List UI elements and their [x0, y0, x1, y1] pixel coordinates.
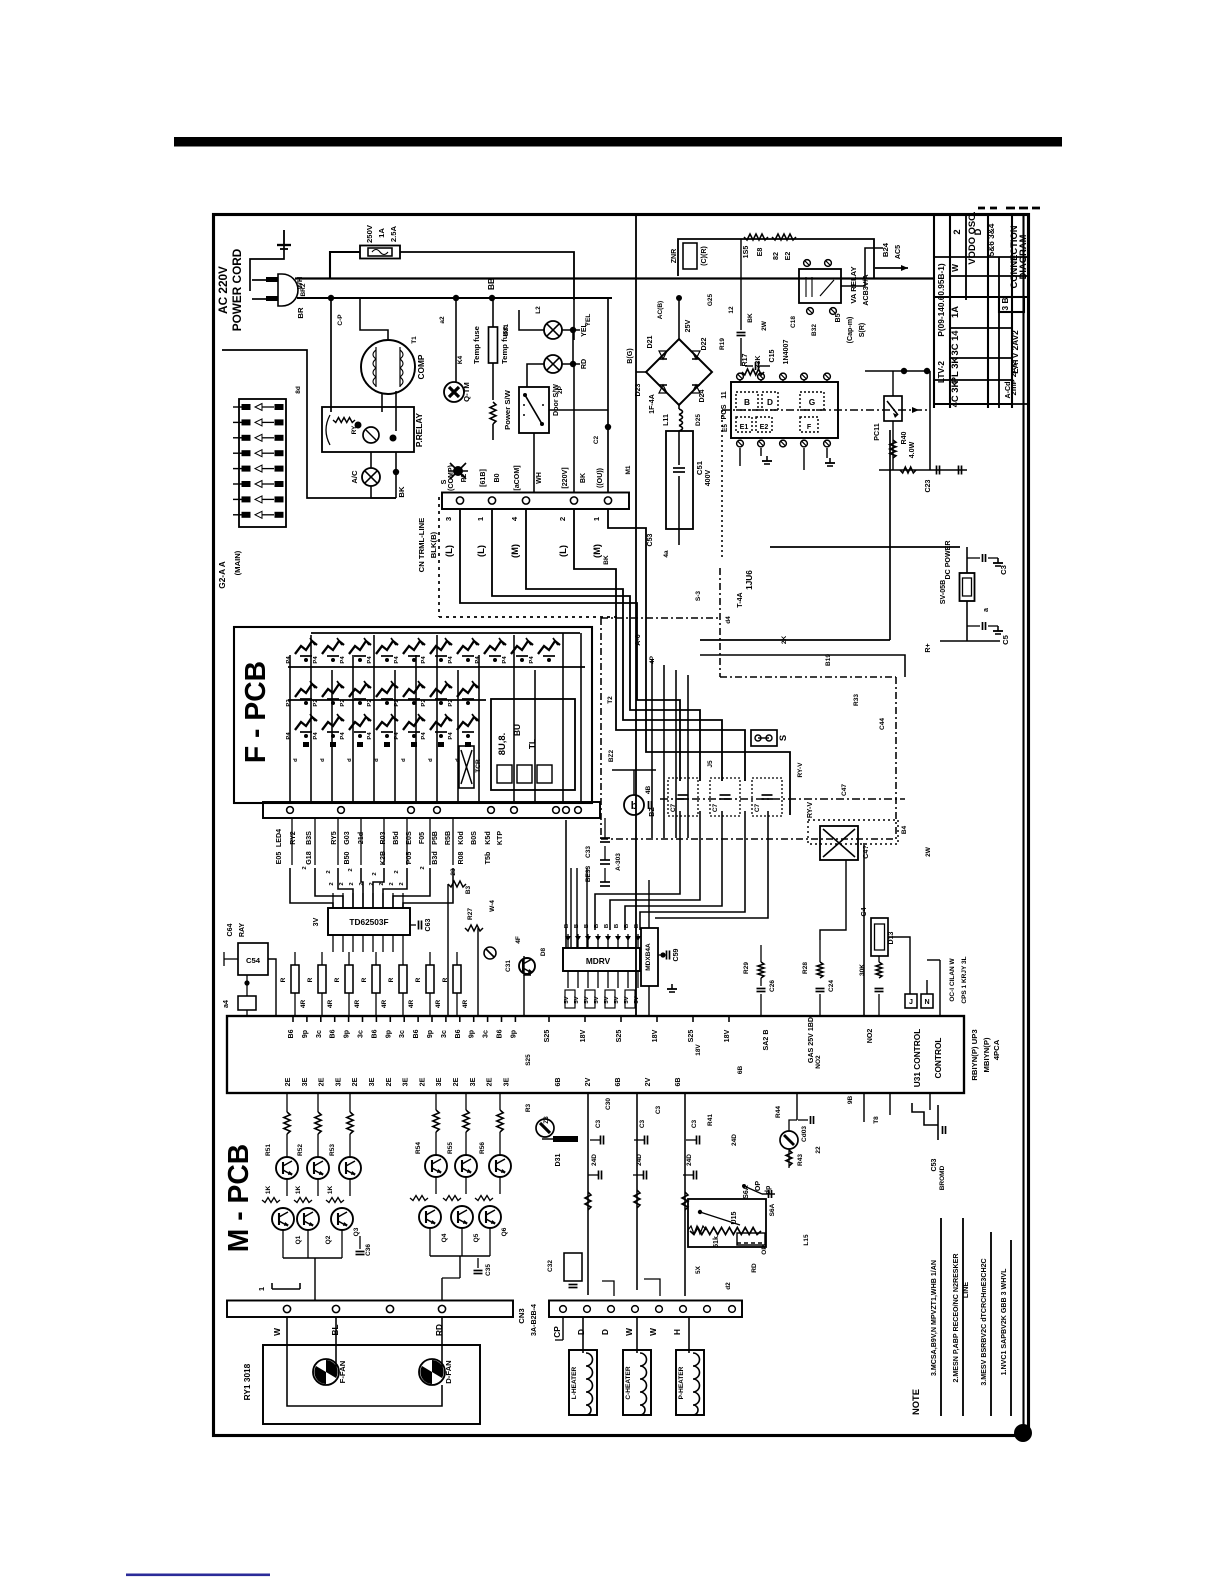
- right cluster above M-PCB: [448, 881, 466, 887]
- svg-text:C-HEATER: C-HEATER: [625, 1366, 632, 1399]
- svg-text:C24: C24: [828, 980, 835, 992]
- svg-text:S: S: [440, 479, 448, 484]
- junction dots on neutral: [328, 295, 334, 301]
- svg-text:9p: 9p: [509, 1029, 517, 1038]
- svg-text:3.MESV BSRBV2C dTCRCHmE3CH2C: 3.MESV BSRBV2C dTCRCHmE3CH2C: [980, 1258, 988, 1385]
- svg-text:B: B: [594, 924, 600, 928]
- svg-text:C3: C3: [999, 565, 1008, 575]
- svg-text:P4: P4: [367, 732, 373, 740]
- svg-text:(L): (L): [443, 545, 454, 557]
- svg-text:MDRV: MDRV: [586, 956, 611, 966]
- svg-text:E2: E2: [784, 252, 792, 261]
- svg-text:P.RELAY: P.RELAY: [414, 412, 424, 447]
- svg-text:1A: 1A: [377, 228, 386, 238]
- svg-text:G03: G03: [343, 831, 351, 844]
- svg-text:U15: U15: [730, 1211, 738, 1224]
- svg-text:B50: B50: [343, 851, 351, 864]
- svg-text:(M): (M): [509, 544, 520, 558]
- relay RY-V: [820, 826, 858, 860]
- svg-text:E5: E5: [722, 424, 729, 432]
- U21 bottom pins: [332, 935, 334, 952]
- svg-text:OC-I CILAN W: OC-I CILAN W: [949, 957, 956, 1001]
- svg-text:Q6: Q6: [501, 1227, 508, 1236]
- svg-text:CPS 1 KRJY 3L: CPS 1 KRJY 3L: [961, 956, 968, 1003]
- svg-text:VA RELAY: VA RELAY: [849, 266, 858, 303]
- F-PCB right verticals: [562, 633, 564, 802]
- svg-text:S: S: [777, 735, 788, 741]
- svg-text:R51: R51: [265, 1144, 272, 1156]
- svg-text:C3: C3: [595, 1119, 602, 1128]
- svg-text:8U,8.: 8U,8.: [496, 733, 507, 755]
- svg-text:B5d: B5d: [392, 831, 400, 844]
- svg-text:3E: 3E: [334, 1077, 342, 1086]
- svg-text:B4: B4: [901, 825, 908, 834]
- lamp symbols on relay: [804, 260, 811, 267]
- svg-text:4C 3K: 4C 3K: [949, 380, 960, 407]
- svg-text:C30: C30: [605, 1098, 612, 1110]
- resistor R40: [890, 440, 896, 458]
- connector strip CN1: [442, 493, 629, 510]
- svg-text:2: 2: [389, 882, 395, 886]
- svg-text:4: 4: [510, 516, 519, 521]
- svg-text:B24: B24: [881, 242, 890, 257]
- svg-text:F - PCB: F - PCB: [239, 661, 271, 763]
- wire earth to plug: [250, 245, 284, 291]
- staircase into MDRV: [595, 811, 680, 930]
- svg-text:C3: C3: [655, 1105, 662, 1114]
- stub wires below M-PCB right: [863, 1093, 865, 1122]
- svg-text:C44: C44: [879, 718, 886, 730]
- svg-text:18V: 18V: [723, 1029, 731, 1042]
- svg-text:Cd03: Cd03: [801, 1126, 808, 1142]
- svg-text:B3S: B3S: [305, 831, 313, 845]
- svg-text:POWER CORD: POWER CORD: [230, 248, 244, 331]
- svg-text:51k: 51k: [712, 1236, 720, 1248]
- svg-text:YEL: YEL: [585, 314, 592, 327]
- svg-text:R: R: [442, 977, 449, 982]
- svg-text:Q2: Q2: [325, 1235, 332, 1244]
- svg-text:82: 82: [772, 252, 780, 260]
- svg-text:TD62503F: TD62503F: [349, 917, 388, 927]
- svg-text:24D: 24D: [636, 1154, 643, 1166]
- svg-text:d: d: [293, 758, 299, 762]
- svg-text:B32: B32: [811, 324, 818, 336]
- transistor Q31: [536, 1119, 554, 1137]
- svg-text:2E: 2E: [318, 1077, 326, 1086]
- svg-text:BLK(B): BLK(B): [429, 531, 438, 558]
- svg-text:1JU6: 1JU6: [744, 570, 754, 590]
- svg-text:C54: C54: [246, 956, 261, 965]
- svg-text:BK: BK: [579, 472, 587, 483]
- fan motor D-FAN: [419, 1359, 445, 1385]
- svg-text:BR: BR: [296, 307, 305, 319]
- svg-text:OP: OP: [754, 1181, 762, 1192]
- temp fuse: [492, 298, 494, 327]
- svg-text:E8: E8: [756, 248, 764, 257]
- svg-text:4F: 4F: [515, 936, 522, 944]
- svg-text:R: R: [334, 977, 341, 982]
- svg-text:3A-B2B-4: 3A-B2B-4: [530, 1304, 538, 1336]
- svg-text:(L): (L): [475, 545, 486, 557]
- svg-text:2.5A: 2.5A: [389, 225, 398, 242]
- dotted caps row: [668, 778, 698, 816]
- svg-text:3: 3: [444, 517, 453, 521]
- svg-text:B: B: [634, 924, 640, 928]
- svg-text:C2: C2: [593, 435, 600, 444]
- smps box right edge: [889, 430, 891, 640]
- svg-text:C32: C32: [547, 1260, 554, 1272]
- M-PCB pin ticks top: [292, 1016, 294, 1022]
- svg-text:3C 14: 3C 14: [949, 330, 960, 356]
- relay RY-P box: [322, 407, 414, 452]
- svg-text:3c: 3c: [440, 1030, 448, 1038]
- svg-text:3E: 3E: [368, 1077, 376, 1086]
- svg-text:Q1: Q1: [295, 1235, 302, 1244]
- svg-text:B0: B0: [493, 473, 501, 482]
- svg-text:P05: P05: [405, 852, 413, 865]
- svg-text:G2-A A: G2-A A: [217, 561, 227, 589]
- svg-text:C63: C63: [424, 918, 432, 931]
- svg-text:C59: C59: [672, 948, 680, 961]
- svg-text:24D: 24D: [686, 1154, 693, 1166]
- wires M-PCB down to thermostat: [587, 1093, 589, 1295]
- wire relay to AC lamp: [370, 452, 372, 468]
- svg-text:6B: 6B: [737, 1066, 744, 1075]
- svg-text:Q5: Q5: [473, 1233, 480, 1242]
- svg-text:D8: D8: [540, 947, 547, 956]
- svg-text:K0d: K0d: [457, 831, 465, 844]
- svg-text:5&6 3&4: 5&6 3&4: [986, 223, 996, 256]
- svg-text:C3: C3: [691, 1119, 698, 1128]
- wire plug to fuse riser: [295, 252, 360, 279]
- vertical main bus: [635, 214, 637, 1016]
- svg-text:1F-4A: 1F-4A: [648, 394, 656, 414]
- svg-text:NOTE: NOTE: [910, 1389, 921, 1415]
- svg-text:B0S: B0S: [470, 831, 478, 845]
- svg-text:4R: 4R: [381, 1000, 388, 1009]
- CN TRML dashed branch: [438, 497, 440, 617]
- svg-text:2W: 2W: [925, 846, 932, 857]
- svg-text:P4: P4: [394, 656, 400, 664]
- svg-text:P4: P4: [421, 656, 427, 664]
- DC power supply 7805: [770, 546, 960, 548]
- svg-text:L-HEATER: L-HEATER: [571, 1367, 578, 1400]
- earth ground symbol: [283, 230, 285, 245]
- svg-text:((OU)): ((OU)): [596, 467, 604, 488]
- svg-text:2: 2: [349, 882, 355, 886]
- svg-text:L11: L11: [662, 414, 670, 426]
- svg-text:MBIYN(P): MBIYN(P): [982, 1037, 991, 1072]
- svg-text:22: 22: [815, 1146, 822, 1154]
- svg-text:S(R): S(R): [858, 322, 866, 337]
- svg-text:1: 1: [476, 516, 485, 521]
- elbow wires into U21: [290, 868, 333, 908]
- svg-text:BROMD: BROMD: [939, 1165, 946, 1190]
- svg-text:3E: 3E: [435, 1077, 443, 1086]
- svg-text:DC POWER: DC POWER: [944, 540, 952, 579]
- svg-text:R27: R27: [467, 908, 474, 920]
- svg-text:R28: R28: [802, 962, 809, 974]
- svg-text:4R: 4R: [300, 1000, 307, 1009]
- fan inner frame: [287, 1345, 442, 1406]
- transformer T1: [361, 340, 415, 394]
- svg-text:T8: T8: [873, 1116, 880, 1124]
- svg-text:1K: 1K: [327, 1186, 334, 1195]
- svg-text:D13: D13: [887, 931, 895, 944]
- svg-text:C33: C33: [585, 846, 592, 858]
- svg-text:B19: B19: [825, 654, 832, 666]
- svg-text:P4: P4: [286, 656, 292, 664]
- svg-text:T-4A: T-4A: [736, 592, 744, 607]
- bottom-left blue underline: [126, 1574, 270, 1577]
- svg-text:B: B: [614, 924, 620, 928]
- svg-text:D: D: [972, 228, 983, 235]
- svg-text:K2B: K2B: [379, 851, 387, 865]
- svg-text:18V: 18V: [651, 1029, 659, 1042]
- svg-text:C15: C15: [768, 349, 776, 362]
- svg-text:P4: P4: [529, 656, 535, 664]
- svg-text:B: B: [744, 397, 750, 407]
- M-PCB main connector: [227, 1016, 964, 1093]
- svg-text:d2: d2: [725, 1282, 732, 1290]
- svg-text:AC(B): AC(B): [657, 301, 664, 319]
- svg-text:P4: P4: [340, 732, 346, 740]
- svg-text:D25: D25: [695, 414, 702, 426]
- svg-text:RY: RY: [351, 425, 358, 434]
- resistor row below U21: [294, 952, 296, 965]
- svg-text:AC 220V: AC 220V: [216, 266, 230, 314]
- svg-text:P(09-140.60.95B-1): P(09-140.60.95B-1): [936, 263, 946, 337]
- svg-text:MDXB4A: MDXB4A: [645, 943, 652, 971]
- bridge leads: [678, 298, 680, 339]
- svg-text:4B: 4B: [645, 786, 652, 795]
- svg-text:BK: BK: [603, 555, 610, 565]
- svg-text:RY1 3018: RY1 3018: [242, 1363, 252, 1400]
- svg-text:11: 11: [720, 391, 728, 399]
- dash-dot enclosure: [601, 617, 720, 619]
- svg-text:D21: D21: [646, 335, 654, 348]
- svg-text:6B: 6B: [674, 1077, 682, 1086]
- svg-text:F: F: [807, 423, 812, 431]
- svg-text:(M): (M): [591, 544, 602, 558]
- F-PCB connector strip: [263, 802, 600, 818]
- svg-text:3c: 3c: [315, 1030, 323, 1038]
- svg-text:P-HEATER: P-HEATER: [678, 1366, 685, 1399]
- dashes above title block: [978, 207, 1000, 210]
- svg-text:W: W: [272, 1328, 282, 1336]
- svg-text:R: R: [280, 977, 287, 982]
- svg-text:LTV-2: LTV-2: [936, 361, 946, 383]
- fan connector strip CN2: [227, 1301, 513, 1318]
- svg-text:2K: 2K: [781, 636, 788, 645]
- svg-text:4P: 4P: [649, 655, 656, 664]
- svg-text:3V: 3V: [312, 917, 320, 926]
- lamp LP1: [544, 321, 562, 339]
- svg-text:D: D: [576, 1329, 586, 1335]
- schematic outer frame: [214, 215, 1029, 1436]
- svg-text:B: B: [624, 924, 630, 928]
- svg-text:D: D: [767, 397, 773, 407]
- transformer bottom wires: [381, 393, 383, 412]
- svg-text:B3d: B3d: [431, 851, 439, 864]
- svg-text:C64: C64: [226, 923, 234, 936]
- fan unit box: [263, 1345, 480, 1424]
- switch wires: [533, 433, 535, 493]
- svg-text:D23: D23: [634, 383, 642, 396]
- svg-text:R44: R44: [775, 1106, 782, 1118]
- svg-text:RD: RD: [751, 1263, 758, 1273]
- svg-text:CN TRML-LINE: CN TRML-LINE: [417, 518, 426, 573]
- svg-text:D-FAN: D-FAN: [444, 1360, 453, 1384]
- svg-text:Power S/W: Power S/W: [503, 389, 512, 429]
- caps on vertical wires: [600, 1136, 602, 1145]
- svg-text:L2: L2: [535, 306, 542, 314]
- IC U11 switching regulator: [731, 382, 838, 438]
- svg-text:R33: R33: [853, 694, 860, 706]
- svg-text:POS: POS: [720, 404, 728, 419]
- svg-text:2: 2: [399, 882, 405, 886]
- connector CN-A block: [239, 399, 286, 527]
- svg-text:1A: 1A: [949, 306, 960, 318]
- svg-text:D: D: [600, 1329, 610, 1335]
- svg-text:a: a: [982, 608, 990, 612]
- svg-text:P4: P4: [367, 656, 373, 664]
- relay RY-PWR: [799, 269, 841, 303]
- svg-text:NO2: NO2: [866, 1029, 874, 1044]
- resistor R11 horizontal: [744, 234, 768, 240]
- svg-text:1K: 1K: [265, 1186, 272, 1195]
- bridge rectifier BD1: [646, 339, 712, 405]
- group1 interconnect: [286, 1179, 288, 1196]
- svg-text:Q-TM: Q-TM: [462, 382, 471, 402]
- svg-text:LINE: LINE: [962, 1282, 970, 1298]
- heater connector strip CN3: [549, 1301, 742, 1318]
- svg-text:1K: 1K: [295, 1186, 302, 1195]
- svg-text:Q3: Q3: [353, 1227, 360, 1236]
- svg-text:P4: P4: [421, 732, 427, 740]
- main live wire L: [295, 277, 933, 279]
- svg-text:3E: 3E: [301, 1077, 309, 1086]
- svg-text:6B: 6B: [614, 1077, 622, 1086]
- svg-text:E0S: E0S: [405, 831, 413, 845]
- dotted vertical: [721, 410, 723, 560]
- svg-text:R40: R40: [900, 431, 908, 444]
- wire below capacitor box: [678, 529, 680, 545]
- svg-text:9p: 9p: [301, 1029, 309, 1038]
- svg-text:24D: 24D: [731, 1134, 738, 1146]
- svg-text:a4: a4: [222, 1000, 230, 1008]
- bottom wire smps: [879, 469, 967, 471]
- svg-text:RY-V: RY-V: [806, 802, 814, 819]
- svg-text:A-303: A-303: [615, 853, 622, 871]
- svg-text:GAS 25V 1BD: GAS 25V 1BD: [807, 1017, 815, 1063]
- smps wire loop right: [841, 248, 883, 286]
- svg-text:9p: 9p: [343, 1029, 351, 1038]
- svg-text:2: 2: [951, 229, 962, 234]
- svg-text:3E: 3E: [502, 1077, 510, 1086]
- opto PC11: [884, 396, 902, 421]
- svg-text:T2: T2: [607, 696, 614, 704]
- svg-text:2E: 2E: [284, 1077, 292, 1086]
- svg-text:C36: C36: [365, 1244, 372, 1256]
- svg-text:2P: 2P: [557, 385, 564, 394]
- svg-text:T1: T1: [411, 336, 418, 344]
- svg-text:4a: 4a: [663, 550, 670, 558]
- lamp wires: [519, 310, 544, 330]
- svg-text:P4: P4: [502, 656, 508, 664]
- svg-text:M - PCB: M - PCB: [222, 1144, 254, 1252]
- svg-text:D31: D31: [554, 1153, 562, 1166]
- small caps group2: [474, 1270, 483, 1272]
- svg-text:R56: R56: [479, 1142, 486, 1154]
- svg-text:[61B]: [61B]: [479, 469, 487, 487]
- svg-text:C7: C7: [670, 803, 677, 812]
- svg-text:NO2: NO2: [815, 1055, 822, 1069]
- svg-text:1S5: 1S5: [742, 246, 750, 259]
- svg-text:W-4: W-4: [489, 900, 496, 912]
- svg-text:B6: B6: [454, 1029, 462, 1038]
- svg-text:WH: WH: [535, 472, 543, 484]
- svg-text:1: 1: [257, 1286, 266, 1291]
- svg-text:S25: S25: [615, 1030, 623, 1043]
- svg-text:BZ2: BZ2: [608, 749, 615, 762]
- svg-text:2: 2: [326, 870, 332, 874]
- svg-text:S25: S25: [525, 1054, 532, 1066]
- svg-text:(Cap-m): (Cap-m): [846, 316, 854, 343]
- svg-text:C4?: C4?: [862, 845, 870, 858]
- svg-text:25V: 25V: [684, 319, 692, 332]
- svg-text:R17: R17: [741, 353, 749, 366]
- svg-text:R: R: [415, 977, 422, 982]
- svg-text:Temp fuse: Temp fuse: [472, 325, 481, 364]
- svg-text:Q4: Q4: [441, 1233, 448, 1242]
- svg-text:12: 12: [728, 306, 735, 314]
- AC power plug: [278, 274, 298, 306]
- svg-text:W: W: [950, 264, 960, 272]
- svg-text:R54: R54: [415, 1142, 422, 1154]
- svg-text:9p: 9p: [468, 1029, 476, 1038]
- svg-text:AC5: AC5: [894, 245, 902, 259]
- title block texts: [936, 211, 1028, 407]
- heater 1: [569, 1350, 597, 1415]
- svg-text:VODO OSC.: VODO OSC.: [966, 211, 977, 264]
- small boxes J N: [905, 994, 917, 1008]
- svg-text:C23: C23: [924, 479, 932, 492]
- svg-text:d: d: [428, 758, 434, 762]
- svg-text:BU: BU: [512, 724, 522, 736]
- svg-text:PL 3K: PL 3K: [949, 357, 960, 384]
- svg-text:2E: 2E: [486, 1077, 494, 1086]
- svg-text:A/C: A/C: [350, 470, 359, 484]
- svg-text:N: N: [924, 998, 929, 1006]
- svg-text:P4: P4: [313, 656, 319, 664]
- F-PCB vertical wires: [289, 655, 291, 802]
- svg-text:D24: D24: [698, 389, 706, 402]
- svg-text:B: B: [564, 924, 570, 928]
- svg-text:d: d: [401, 758, 407, 762]
- frame inner right border line: [1022, 215, 1024, 1436]
- svg-text:P4: P4: [448, 732, 454, 740]
- svg-text:1.NVC1 SAPBV2K GBB 3 WHVL: 1.NVC1 SAPBV2K GBB 3 WHVL: [1000, 1268, 1008, 1375]
- svg-text:P4: P4: [286, 732, 292, 740]
- svg-text:2E: 2E: [418, 1077, 426, 1086]
- svg-text:BR2: BR2: [300, 283, 307, 296]
- svg-text:LED4: LED4: [275, 829, 283, 847]
- svg-text:C51: C51: [695, 460, 704, 475]
- wire bundle CN1 to F-PCB: [460, 509, 680, 781]
- power switch SW1: [519, 387, 549, 433]
- svg-text:E1: E1: [740, 423, 749, 431]
